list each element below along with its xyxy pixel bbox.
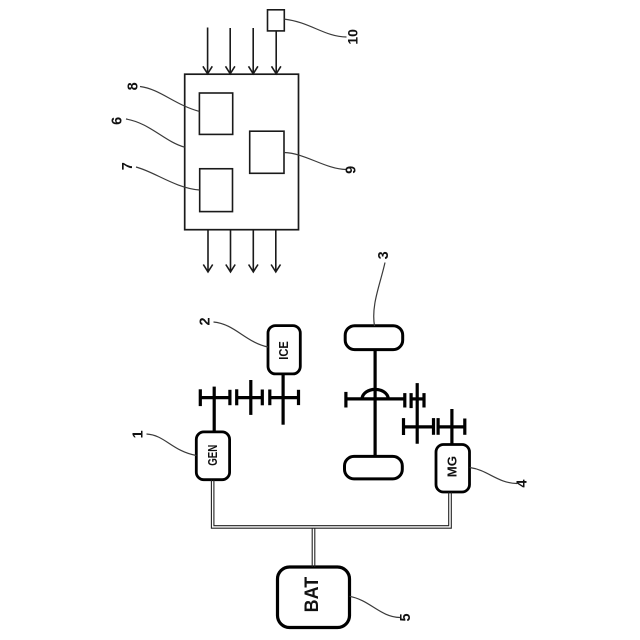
svg-text:10: 10 bbox=[344, 29, 360, 45]
svg-text:GEN: GEN bbox=[205, 445, 220, 466]
svg-text:7: 7 bbox=[120, 162, 136, 170]
svg-text:3: 3 bbox=[376, 251, 392, 259]
svg-text:8: 8 bbox=[126, 82, 142, 90]
svg-text:MG: MG bbox=[445, 456, 459, 477]
svg-text:4: 4 bbox=[515, 480, 531, 488]
svg-text:9: 9 bbox=[343, 166, 359, 174]
svg-text:BAT: BAT bbox=[301, 577, 323, 613]
svg-text:5: 5 bbox=[398, 613, 414, 621]
svg-text:6: 6 bbox=[109, 117, 125, 125]
svg-text:1: 1 bbox=[131, 430, 147, 438]
svg-text:2: 2 bbox=[198, 317, 214, 325]
svg-text:ICE: ICE bbox=[277, 341, 291, 360]
